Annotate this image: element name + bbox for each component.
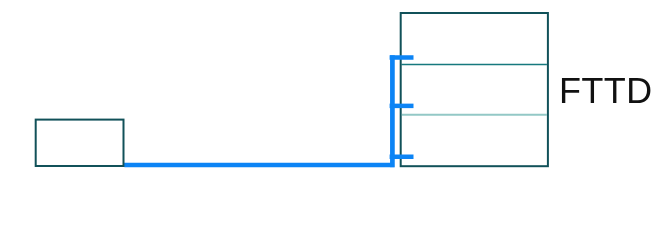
label FTTD [559, 73, 653, 109]
floor stub 3 [390, 155, 414, 160]
floor line 1 [402, 64, 547, 66]
vertical riser [390, 55, 395, 167]
horizontal drop cable [124, 163, 394, 168]
floor stub 1 [390, 55, 414, 60]
equipment box [36, 120, 124, 166]
floor line 2 [402, 114, 547, 116]
floor stub 2 [390, 104, 414, 109]
building outline [401, 13, 548, 166]
